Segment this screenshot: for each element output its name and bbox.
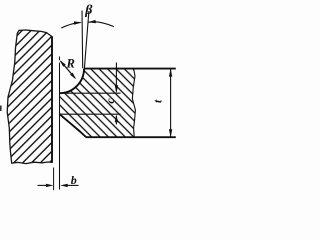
svg-text:R: R (66, 57, 75, 71)
svg-text:b: b (71, 173, 77, 187)
svg-text:c: c (103, 98, 117, 104)
svg-text:β: β (84, 3, 93, 18)
